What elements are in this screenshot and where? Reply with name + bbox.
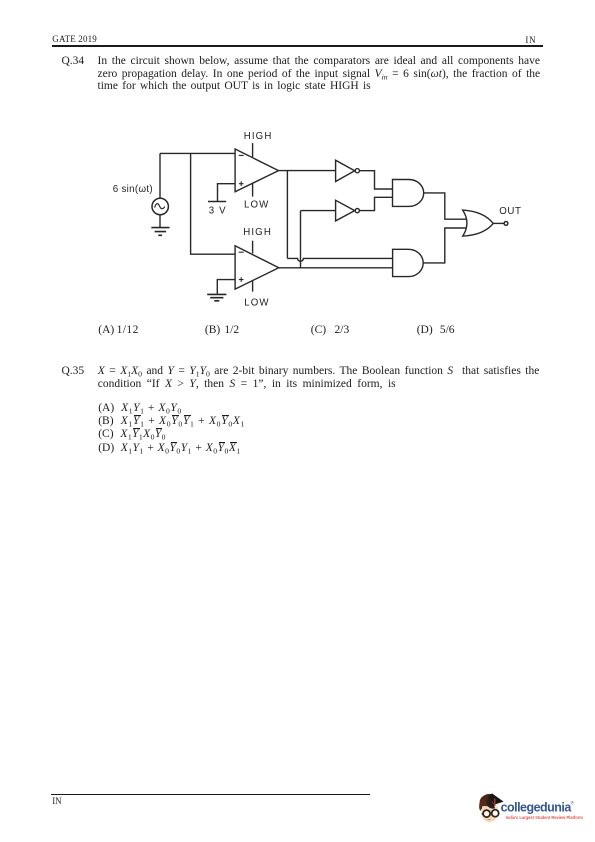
svg-text:®: ® [571,800,575,806]
Q.35 options [98,402,182,415]
tassel [494,799,496,806]
wire branch down to U2 minus [191,153,236,254]
wire source top [159,153,161,198]
mascot face [481,806,498,822]
svg-text:collegedunia: collegedunia [501,800,573,814]
collegedunia logo [470,790,588,832]
svg-text:3 V: 3 V [209,205,227,216]
comparator U1 [235,149,278,192]
wire AND1 to OR [424,193,467,219]
tick LOW U2 [252,281,254,292]
Q34 options [98,324,139,337]
grad cap board [488,793,503,804]
wire source bottom to ground [159,214,161,227]
footer: IN [52,797,61,806]
ground G2 [207,294,226,300]
Q.35 label [62,365,85,378]
sine source VS [152,198,168,214]
wire A2 out to AND1 bottom input [359,197,392,210]
wire to AND2 top input (hop over vertical) [287,258,392,261]
svg-text:LOW: LOW [244,298,269,309]
comparator U2 [235,246,279,289]
wire U2 out up to A2 [300,211,302,268]
wire A1 out to AND1 top input [359,171,392,189]
mouth [488,818,491,821]
Q.34 line 3 [98,80,371,93]
wire branch U1 out down [286,171,288,259]
svg-text:India's Largest Student Review: India's Largest Student Review Platform [506,815,584,820]
footer rule [51,794,370,795]
header: GATE 2019 [52,35,97,44]
wire U1 plus to 3V [218,184,236,202]
grad cap crown [487,797,495,809]
tick LOW U1 [252,183,254,196]
inverter A2 [336,200,355,221]
header rule [52,45,543,47]
inverter A1 [336,160,355,181]
Q.35 line 1 [98,365,540,378]
wire top rail to U1 minus [160,152,235,154]
OR gate [463,210,494,236]
AND gate 2 [393,249,424,276]
wire OR output [493,222,504,224]
wire A2 input [301,210,336,212]
wire U1 output [279,170,336,172]
svg-text:LOW: LOW [244,199,269,210]
wire AND2 to OR [423,228,466,263]
mascot hair [480,794,496,810]
node OUT [504,222,508,226]
Q.34 line 2 [98,68,541,81]
3V bar [208,201,226,203]
header: IN [525,36,536,45]
tick HIGH U2 [252,241,254,254]
U1 inverting input marker [239,154,244,156]
Q.34 label [62,55,85,68]
svg-text:OUT: OUT [499,206,521,217]
U2 non-inverting input marker [239,277,244,282]
Q.35 line 2 [98,378,396,391]
ground G1 [151,228,169,236]
tick HIGH U1 [252,143,254,157]
wire U2 plus to ground [217,280,235,294]
svg-text:6 sin(ωt): 6 sin(ωt) [113,184,153,195]
svg-text:HIGH: HIGH [244,131,273,142]
AND gate 1 [393,180,424,207]
U2 inverting input marker [239,251,244,253]
glasses [483,810,490,817]
Q.34 line 1 [98,55,540,68]
svg-text:HIGH: HIGH [243,227,272,238]
U1 non-inverting input marker [239,181,244,186]
wire U2 output to AND2 bottom input [279,267,393,269]
